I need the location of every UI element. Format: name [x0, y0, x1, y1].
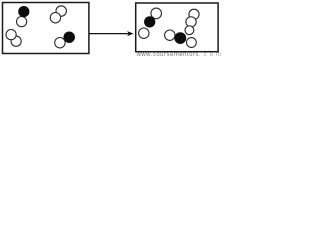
- reactant box (left): [3, 3, 89, 54]
- reaction arrow: [89, 31, 133, 36]
- molecule M1: [17, 6, 30, 27]
- molecule M3: [6, 29, 21, 46]
- product box (right): [136, 3, 218, 52]
- molecule M6: [186, 9, 199, 27]
- molecule M4: [55, 31, 75, 47]
- molecule M2: [50, 6, 66, 23]
- molecule M5: [139, 8, 162, 38]
- background: [0, 0, 222, 56]
- molecule M7: [165, 26, 197, 48]
- svg-text:www.coursementors: www.coursementors: [136, 52, 199, 56]
